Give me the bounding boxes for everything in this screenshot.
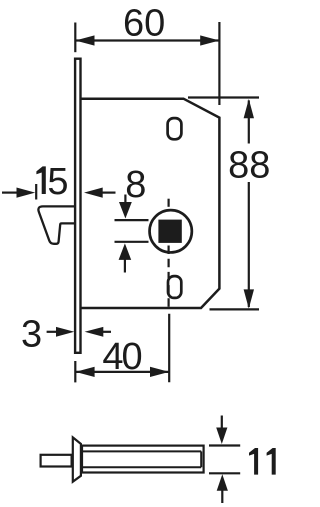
svg-text:88: 88 [228,145,270,187]
svg-text:5: 5 [47,161,68,203]
svg-text:8: 8 [125,164,146,206]
svg-text:3: 3 [21,313,42,355]
svg-text:40: 40 [102,336,142,378]
svg-text:60: 60 [123,3,165,45]
